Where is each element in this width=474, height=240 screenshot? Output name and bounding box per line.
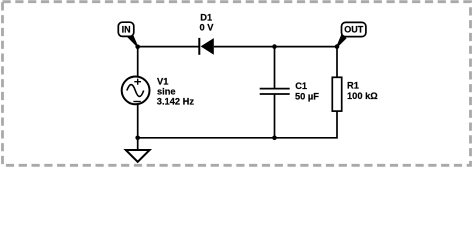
svg-text:D1: D1 <box>200 12 212 22</box>
node: C1 top junction dot <box>272 44 277 49</box>
wire: OUT node down to C1 top plate <box>274 47 276 89</box>
svg-text:OUT: OUT <box>344 25 364 35</box>
svg-text:3.142 Hz: 3.142 Hz <box>157 96 195 106</box>
capacitor C1: bottom plate <box>260 93 290 95</box>
svg-text:sine: sine <box>157 86 176 96</box>
wire: ground stem <box>137 138 139 150</box>
svg-text:IN: IN <box>122 24 131 34</box>
node: OUT junction dot <box>335 44 340 49</box>
flag IN: connector wedge <box>127 34 138 47</box>
wire: V1 minus terminal down to bottom net <box>137 103 139 138</box>
source V1: minus sign <box>133 101 140 103</box>
source V1: plus sign <box>134 79 141 85</box>
flag OUT: connector wedge <box>337 34 347 47</box>
wire: OUT node down to R1 top <box>336 47 338 78</box>
wire: IN node down to V1 plus terminal <box>137 47 139 78</box>
wire: C1 bottom plate to bottom net <box>274 94 276 138</box>
diode D1: anode triangle <box>201 38 214 55</box>
flag IN: rounded box <box>118 22 134 36</box>
capacitor C1: top plate <box>260 88 290 90</box>
svg-text:C1: C1 <box>295 81 307 91</box>
wire: bottom ground net from V1 to R1 <box>138 111 337 138</box>
source V1: sine waveform <box>127 85 144 97</box>
wire: IN node to D1 cathode <box>138 46 200 48</box>
diode D1: cathode bar <box>198 38 200 55</box>
wire: D1 anode to OUT node <box>214 46 337 48</box>
resistor R1: body box <box>332 77 341 111</box>
flag OUT: rounded box <box>342 22 366 36</box>
source V1: circle body <box>122 77 150 105</box>
node: C1 bottom junction dot <box>272 136 277 141</box>
svg-text:R1: R1 <box>347 81 359 91</box>
node: V1/ground bottom junction dot <box>135 136 140 141</box>
svg-text:100 kΩ: 100 kΩ <box>347 91 378 101</box>
svg-text:50 µF: 50 µF <box>295 92 319 102</box>
svg-text:V1: V1 <box>157 76 168 86</box>
ground symbol <box>126 150 150 162</box>
node: IN junction dot <box>135 45 140 50</box>
svg-text:0 V: 0 V <box>200 23 215 33</box>
